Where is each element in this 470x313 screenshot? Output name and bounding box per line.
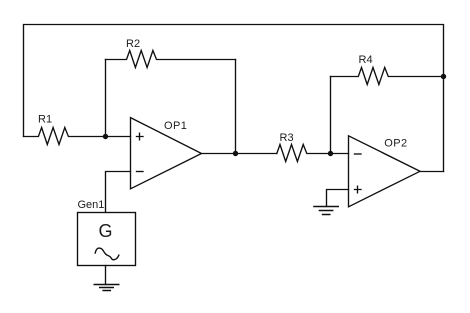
op-amp U1 OP1 triangle — [131, 118, 202, 189]
ground under Gen1 — [94, 285, 118, 291]
svg-text:R1: R1 — [38, 114, 52, 126]
resistor R3 — [277, 145, 349, 162]
wire R4 left leg — [330, 77, 332, 154]
svg-text:Gen1: Gen1 — [78, 199, 105, 211]
ground under OP2 plus input — [314, 207, 338, 215]
svg-text:R2: R2 — [126, 38, 140, 50]
wire OP1 minus input to Gen1 top — [106, 172, 131, 213]
resistor R2 — [106, 51, 236, 68]
Gen1 sine wave symbol — [95, 248, 119, 260]
node D junction dot at R4 / feedback wire — [441, 74, 446, 79]
wire R2 right leg — [235, 60, 237, 154]
node B junction dot at OP1 output / R2 right leg — [233, 151, 238, 156]
wire OP1 output to R3 — [202, 153, 277, 155]
wire OP2 plus input to ground — [327, 190, 349, 207]
OP2 plus input symbol — [355, 186, 362, 193]
resistor R1 — [24, 128, 131, 145]
svg-text:OP1: OP1 — [164, 120, 187, 132]
svg-text:G: G — [99, 221, 113, 241]
OP1 minus input symbol — [137, 171, 144, 173]
svg-text:R4: R4 — [359, 54, 373, 66]
wire Gen1 bottom to ground — [105, 266, 107, 285]
wire top feedback from OP2 output up and across to R1 left leg — [24, 25, 444, 172]
OP1 plus input symbol — [137, 133, 144, 140]
wire R2 left leg — [105, 60, 107, 137]
svg-text:R3: R3 — [280, 132, 294, 144]
resistor R4 — [331, 68, 444, 85]
node A junction dot at R1 / R2 / OP1 plus input — [103, 134, 108, 139]
op-amp U2 OP2 triangle — [349, 136, 421, 207]
wire OP2 output — [420, 171, 444, 173]
svg-text:OP2: OP2 — [384, 138, 407, 150]
node C junction dot at R3 / R4 / OP2 minus input — [328, 151, 333, 156]
OP2 minus input symbol — [355, 153, 362, 155]
generator Gen1 box — [78, 213, 136, 266]
